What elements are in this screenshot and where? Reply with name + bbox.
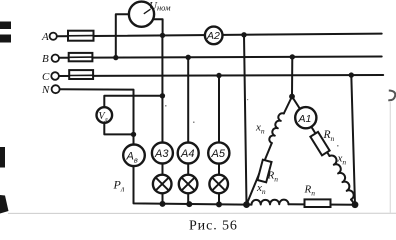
svg-text:A: A [41, 31, 49, 43]
svg-text:A2: A2 [206, 30, 220, 42]
svg-text:A4: A4 [180, 148, 194, 160]
svg-text:A1: A1 [298, 113, 312, 125]
svg-text:C: C [42, 71, 50, 83]
svg-text:Rп: Rп [323, 129, 335, 143]
svg-text:xп: xп [255, 122, 265, 136]
svg-text:Uном: Uном [149, 0, 171, 13]
svg-text:Рл: Рл [113, 178, 125, 194]
svg-text:B: B [42, 53, 49, 65]
svg-text:A3: A3 [154, 148, 169, 160]
svg-text:xп: xп [337, 153, 347, 167]
svg-text:Rп: Rп [304, 184, 316, 198]
svg-text:N: N [41, 84, 50, 96]
svg-text:Rп: Rп [267, 170, 279, 184]
svg-text:Рис. 56: Рис. 56 [189, 219, 238, 234]
svg-text:A5: A5 [211, 148, 226, 160]
svg-text:xп: xп [256, 182, 266, 196]
